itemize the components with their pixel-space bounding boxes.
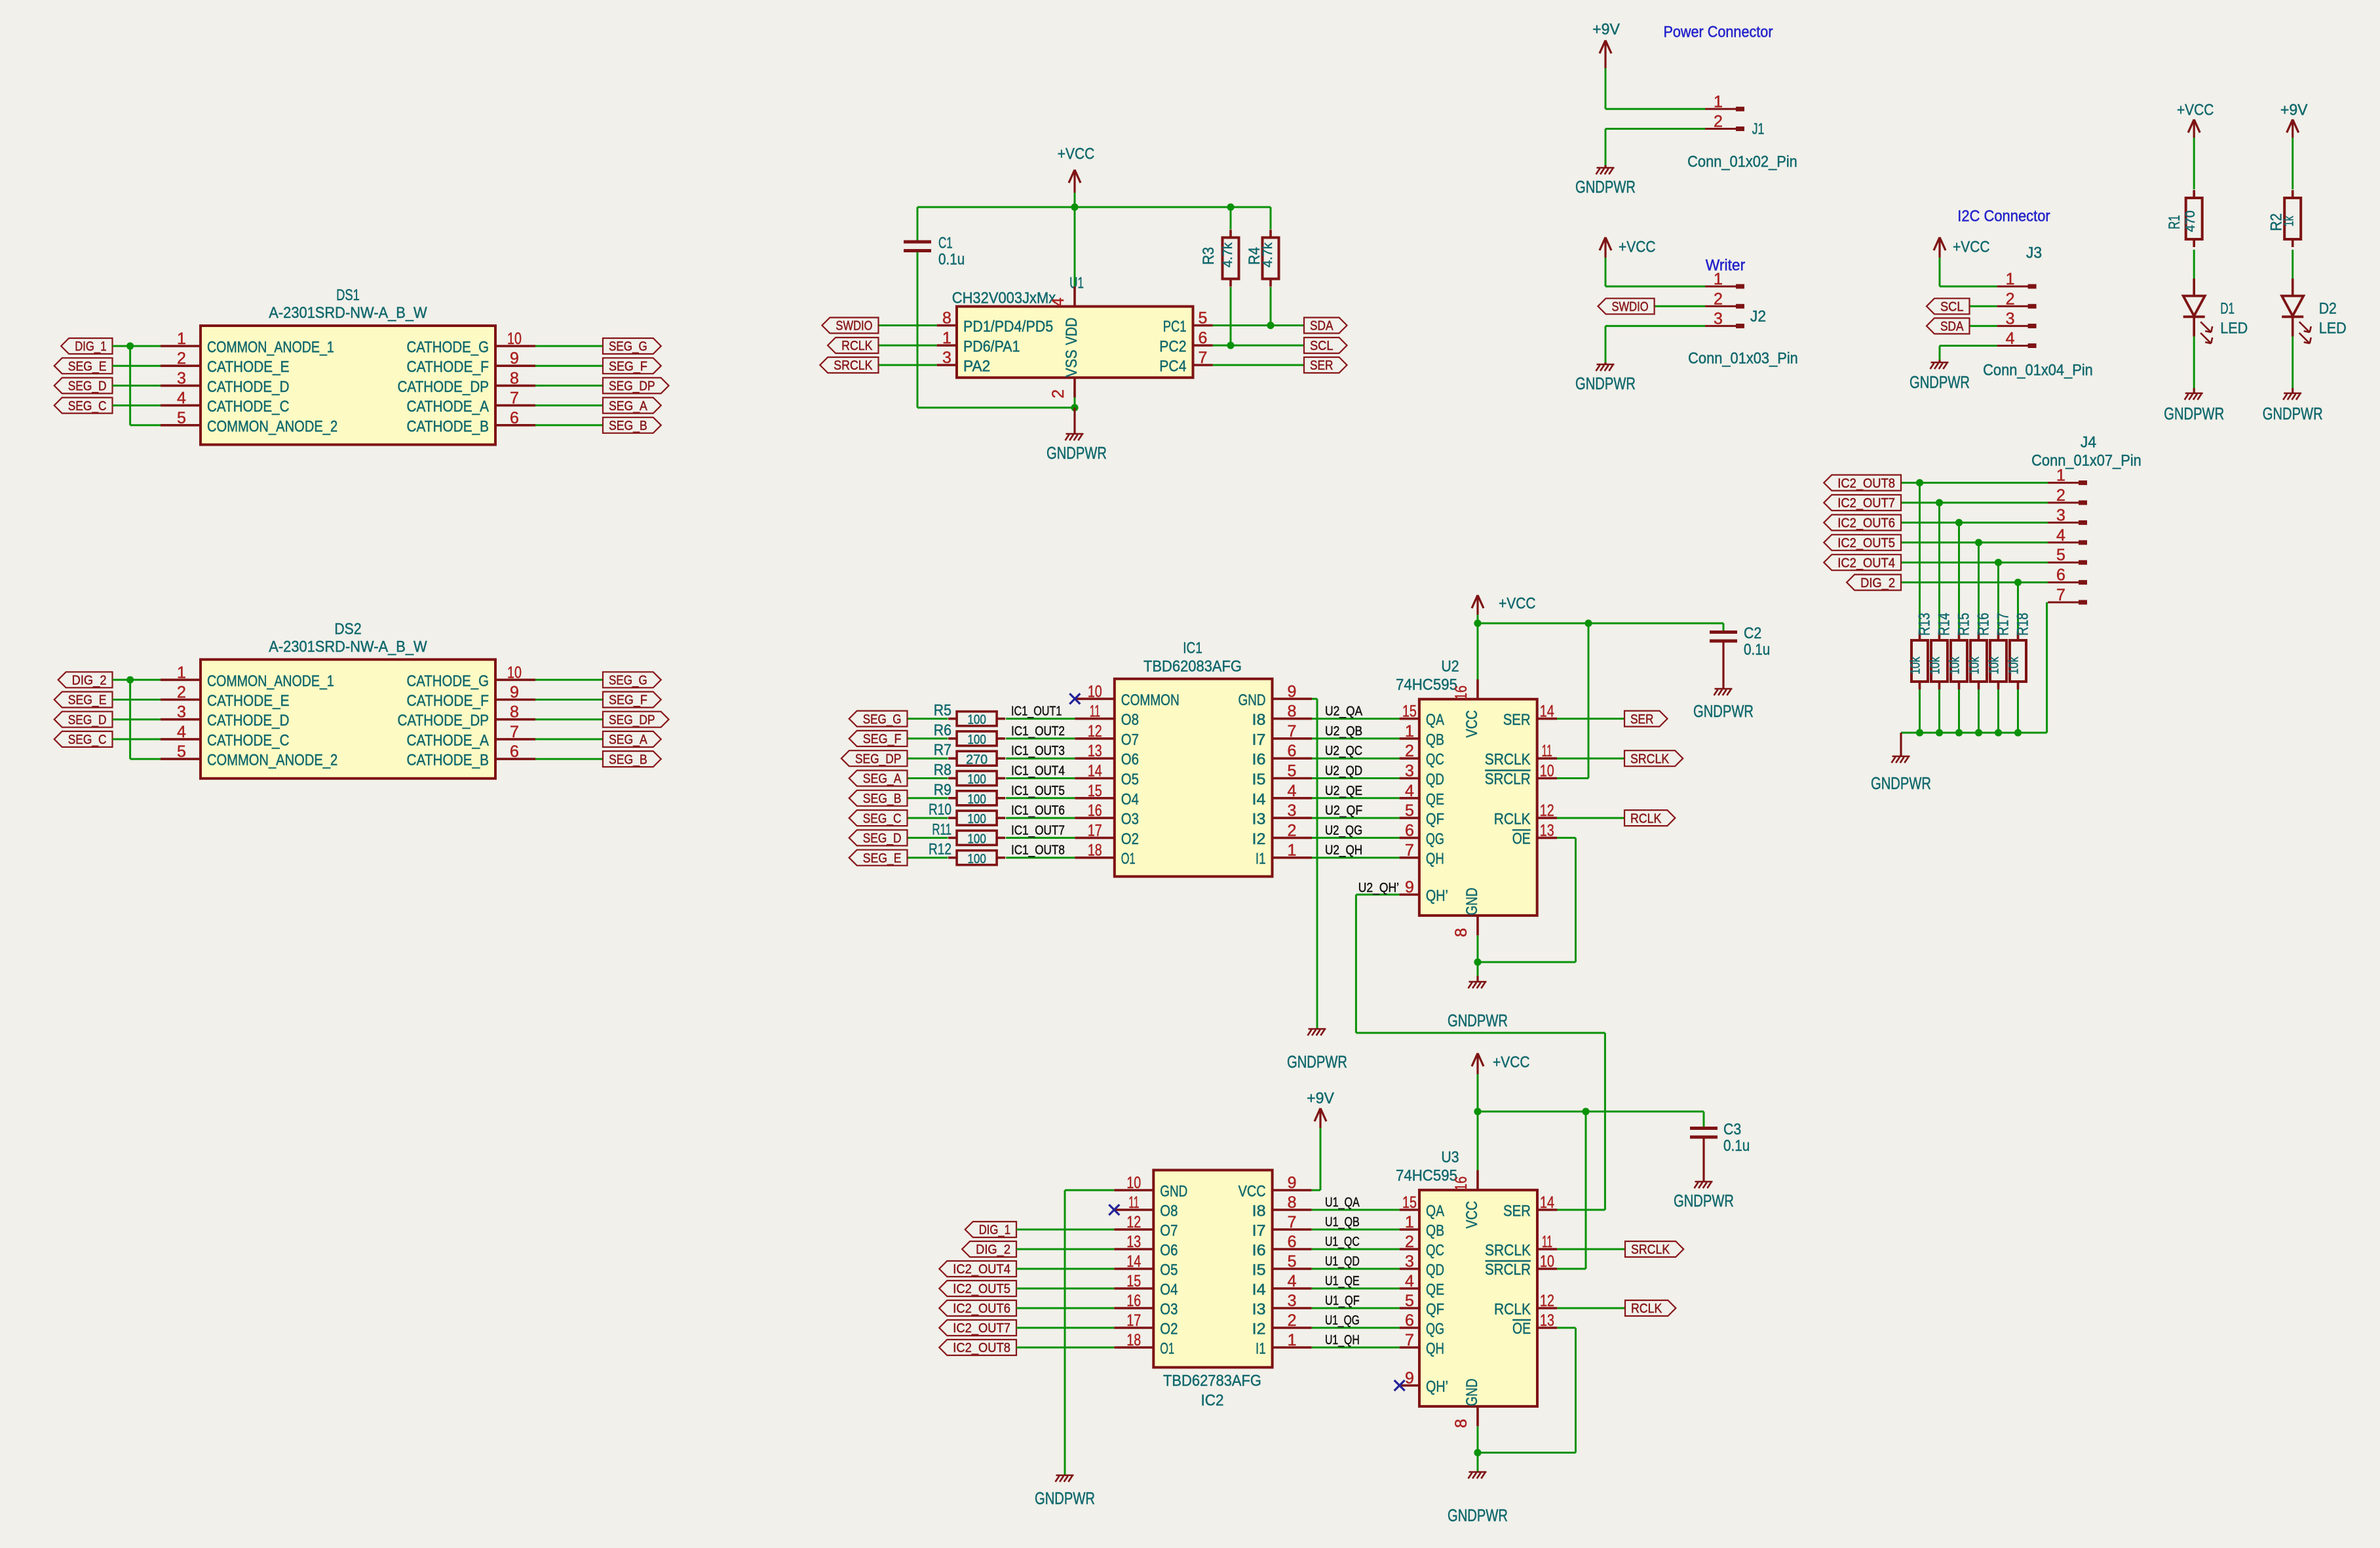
svg-text:100: 100 [967, 792, 986, 807]
svg-text:5: 5 [1199, 309, 1208, 328]
svg-text:SEG_A: SEG_A [609, 733, 647, 747]
svg-text:R15: R15 [1955, 613, 1973, 636]
svg-text:470: 470 [2183, 210, 2198, 232]
svg-text:2: 2 [1405, 742, 1414, 760]
svg-text:A-2301SRD-NW-A_B_W: A-2301SRD-NW-A_B_W [269, 304, 427, 322]
svg-text:16: 16 [1452, 1176, 1470, 1191]
svg-text:R3: R3 [1200, 247, 1218, 265]
svg-text:IC1_OUT3: IC1_OUT3 [1011, 744, 1065, 758]
svg-text:SEG_D: SEG_D [68, 713, 107, 727]
svg-text:SDA: SDA [1310, 319, 1334, 334]
svg-text:U1_QD: U1_QD [1325, 1254, 1360, 1269]
svg-text:11: 11 [1542, 1233, 1552, 1251]
svg-text:1: 1 [1714, 92, 1723, 111]
svg-text:10k: 10k [1909, 656, 1923, 674]
svg-text:7: 7 [1405, 842, 1414, 860]
svg-text:VCC: VCC [1463, 710, 1481, 738]
svg-text:CATHODE_A: CATHODE_A [407, 731, 489, 749]
svg-text:CATHODE_C: CATHODE_C [207, 398, 290, 416]
svg-text:QG: QG [1426, 1321, 1444, 1338]
svg-text:2: 2 [2006, 290, 2015, 308]
svg-text:PD1/PD4/PD5: PD1/PD4/PD5 [963, 318, 1053, 336]
svg-text:+VCC: +VCC [1493, 1054, 1530, 1072]
svg-text:10k: 10k [2007, 656, 2022, 674]
svg-text:I2: I2 [1252, 1321, 1266, 1338]
svg-text:O3: O3 [1121, 811, 1139, 828]
svg-text:QF: QF [1426, 1301, 1444, 1319]
svg-text:U1_QG: U1_QG [1325, 1313, 1360, 1328]
svg-text:I1: I1 [1256, 850, 1266, 868]
svg-text:7: 7 [510, 389, 519, 408]
svg-text:GNDPWR: GNDPWR [2263, 405, 2323, 423]
svg-text:100: 100 [967, 852, 986, 866]
svg-text:GND: GND [1160, 1183, 1187, 1201]
svg-text:6: 6 [1405, 1311, 1414, 1330]
svg-text:SEG_B: SEG_B [609, 752, 647, 767]
svg-text:CATHODE_F: CATHODE_F [407, 692, 489, 710]
svg-text:O7: O7 [1160, 1222, 1178, 1240]
svg-text:SRCLK: SRCLK [834, 358, 873, 373]
svg-text:CATHODE_F: CATHODE_F [407, 358, 489, 376]
svg-text:PC4: PC4 [1159, 358, 1186, 376]
svg-text:11: 11 [1542, 742, 1552, 760]
svg-text:DIG_2: DIG_2 [976, 1243, 1010, 1257]
svg-text:4.7k: 4.7k [1221, 242, 1235, 267]
svg-text:VCC: VCC [1238, 1183, 1266, 1201]
svg-text:SEG_C: SEG_C [863, 811, 902, 826]
svg-text:0.1u: 0.1u [938, 251, 965, 269]
svg-text:IC2_OUT8: IC2_OUT8 [953, 1341, 1010, 1355]
svg-text:I7: I7 [1252, 1222, 1266, 1240]
svg-text:R5: R5 [934, 702, 951, 720]
svg-text:0.1u: 0.1u [1744, 641, 1770, 659]
svg-text:O2: O2 [1160, 1321, 1178, 1338]
svg-text:U1_QH: U1_QH [1325, 1333, 1360, 1347]
svg-text:U2_QA: U2_QA [1325, 705, 1363, 719]
svg-text:CATHODE_DP: CATHODE_DP [398, 378, 489, 396]
svg-text:J3: J3 [2026, 244, 2042, 262]
svg-text:QG: QG [1426, 830, 1444, 848]
svg-text:9: 9 [510, 349, 519, 368]
svg-text:+9V: +9V [2280, 102, 2308, 119]
svg-text:IC2_OUT5: IC2_OUT5 [953, 1282, 1010, 1296]
svg-text:SEG_B: SEG_B [609, 419, 647, 433]
svg-text:CATHODE_G: CATHODE_G [407, 339, 489, 357]
svg-text:Conn_01x02_Pin: Conn_01x02_Pin [1687, 153, 1797, 171]
svg-text:17: 17 [1088, 821, 1102, 840]
svg-text:LED: LED [2319, 320, 2347, 338]
svg-text:R11: R11 [932, 821, 951, 838]
svg-text:D2: D2 [2319, 300, 2337, 318]
svg-text:16: 16 [1452, 686, 1470, 700]
svg-text:IC1_OUT5: IC1_OUT5 [1011, 784, 1065, 798]
svg-text:7: 7 [1199, 349, 1208, 367]
svg-text:13: 13 [1126, 1233, 1141, 1251]
svg-text:1: 1 [177, 330, 186, 348]
svg-text:TBD62783AFG: TBD62783AFG [1163, 1372, 1261, 1390]
svg-text:GNDPWR: GNDPWR [1871, 775, 1931, 793]
svg-text:+9V: +9V [1307, 1090, 1334, 1108]
svg-text:OE: OE [1512, 1320, 1531, 1338]
svg-text:SER: SER [1310, 358, 1334, 373]
svg-text:1: 1 [1714, 270, 1723, 288]
svg-text:U1_QF: U1_QF [1325, 1294, 1360, 1308]
svg-text:14: 14 [1088, 762, 1102, 781]
svg-text:6: 6 [1288, 742, 1297, 760]
svg-text:+VCC: +VCC [1058, 145, 1095, 163]
svg-text:TBD62083AFG: TBD62083AFG [1143, 658, 1242, 676]
svg-text:3: 3 [177, 369, 186, 387]
svg-text:7: 7 [510, 723, 519, 741]
svg-text:4: 4 [2056, 526, 2065, 545]
svg-text:COMMON_ANODE_1: COMMON_ANODE_1 [207, 672, 334, 690]
svg-text:Conn_01x04_Pin: Conn_01x04_Pin [1983, 362, 2093, 379]
svg-text:U2_QF: U2_QF [1325, 803, 1362, 818]
svg-text:8: 8 [1452, 928, 1470, 937]
svg-text:COMMON: COMMON [1121, 691, 1180, 709]
svg-text:9: 9 [510, 684, 519, 702]
svg-text:10: 10 [1540, 1252, 1554, 1271]
svg-text:DIG_1: DIG_1 [979, 1223, 1010, 1237]
svg-text:7: 7 [1405, 1331, 1414, 1349]
svg-text:2: 2 [1288, 1311, 1297, 1330]
svg-text:SRCLK: SRCLK [1485, 751, 1531, 769]
svg-text:15: 15 [1402, 1193, 1417, 1212]
svg-text:SER: SER [1503, 711, 1531, 729]
svg-text:R16: R16 [1975, 613, 1993, 636]
svg-text:RCLK: RCLK [1631, 1302, 1662, 1316]
svg-text:17: 17 [1126, 1311, 1141, 1330]
svg-text:100: 100 [967, 832, 986, 847]
svg-text:18: 18 [1088, 842, 1102, 860]
svg-text:10: 10 [1126, 1174, 1141, 1192]
svg-text:3: 3 [1405, 762, 1414, 781]
svg-text:SEG_G: SEG_G [609, 674, 647, 688]
svg-text:IC1: IC1 [1183, 640, 1202, 657]
svg-text:OE: OE [1512, 830, 1531, 847]
svg-text:GNDPWR: GNDPWR [1448, 1507, 1508, 1525]
svg-text:PC1: PC1 [1163, 318, 1187, 336]
svg-text:12: 12 [1540, 1292, 1554, 1310]
svg-text:IC1_OUT7: IC1_OUT7 [1011, 823, 1065, 838]
svg-text:LED: LED [2220, 320, 2248, 338]
svg-text:R17: R17 [1995, 613, 2012, 636]
svg-text:I6: I6 [1252, 1242, 1266, 1260]
svg-text:Power Connector: Power Connector [1663, 24, 1773, 41]
svg-text:IC1_OUT2: IC1_OUT2 [1011, 724, 1065, 739]
svg-text:SEG_E: SEG_E [68, 359, 107, 374]
svg-text:SEG_D: SEG_D [863, 832, 902, 846]
svg-text:3: 3 [2056, 506, 2065, 524]
svg-text:IC2_OUT7: IC2_OUT7 [1837, 496, 1895, 511]
svg-text:GNDPWR: GNDPWR [1287, 1053, 1347, 1072]
svg-text:C1: C1 [938, 235, 953, 252]
svg-text:CATHODE_B: CATHODE_B [407, 417, 489, 435]
svg-text:16: 16 [1088, 802, 1102, 820]
svg-text:J4: J4 [2081, 434, 2096, 452]
svg-text:270: 270 [966, 752, 988, 767]
svg-text:J2: J2 [1750, 308, 1766, 326]
svg-text:100: 100 [967, 812, 986, 826]
svg-text:14: 14 [1540, 1193, 1554, 1212]
svg-text:100: 100 [967, 733, 986, 747]
svg-text:C2: C2 [1744, 625, 1761, 642]
svg-text:GND: GND [1463, 1379, 1481, 1406]
svg-text:5: 5 [1405, 1292, 1414, 1310]
svg-text:QA: QA [1426, 711, 1444, 729]
svg-text:O5: O5 [1160, 1262, 1178, 1279]
svg-text:4: 4 [1288, 782, 1297, 800]
svg-text:R8: R8 [934, 762, 951, 779]
svg-text:COMMON_ANODE_1: COMMON_ANODE_1 [207, 339, 334, 357]
svg-text:PD6/PA1: PD6/PA1 [963, 338, 1020, 356]
svg-text:CATHODE_B: CATHODE_B [407, 752, 489, 769]
svg-text:O8: O8 [1121, 711, 1139, 729]
svg-text:VCC: VCC [1463, 1201, 1481, 1229]
svg-text:QE: QE [1426, 790, 1444, 808]
svg-text:R7: R7 [934, 741, 951, 759]
svg-text:R13: R13 [1916, 613, 1934, 636]
svg-text:QH: QH [1426, 850, 1444, 868]
svg-text:RCLK: RCLK [1494, 1301, 1531, 1319]
svg-text:VSS: VSS [1063, 350, 1081, 377]
svg-text:SEG_C: SEG_C [68, 733, 107, 747]
svg-text:U3: U3 [1441, 1149, 1459, 1167]
svg-text:CATHODE_G: CATHODE_G [407, 672, 489, 690]
svg-text:I8: I8 [1252, 711, 1266, 729]
svg-text:IC1_OUT8: IC1_OUT8 [1011, 843, 1065, 858]
svg-text:9: 9 [1288, 682, 1297, 701]
svg-text:I4: I4 [1252, 1281, 1266, 1299]
svg-text:6: 6 [1405, 821, 1414, 840]
svg-text:14: 14 [1126, 1252, 1141, 1271]
svg-text:SEG_E: SEG_E [863, 851, 902, 866]
svg-text:DIG_1: DIG_1 [75, 339, 106, 354]
svg-text:QC: QC [1426, 1242, 1444, 1260]
svg-text:U2_QH: U2_QH [1325, 843, 1362, 858]
svg-text:QH: QH [1426, 1340, 1444, 1358]
svg-text:QB: QB [1426, 731, 1444, 748]
svg-text:1: 1 [942, 329, 951, 347]
svg-text:RCLK: RCLK [1494, 811, 1531, 828]
svg-text:I3: I3 [1252, 1301, 1266, 1319]
svg-text:U2_QE: U2_QE [1325, 784, 1362, 798]
svg-text:IC1_OUT6: IC1_OUT6 [1011, 803, 1065, 818]
svg-text:SEG_E: SEG_E [68, 693, 107, 708]
svg-text:O1: O1 [1160, 1340, 1174, 1358]
svg-text:I2: I2 [1252, 830, 1266, 848]
svg-text:U2_QG: U2_QG [1325, 823, 1362, 838]
svg-text:R12: R12 [929, 841, 951, 859]
svg-text:3: 3 [177, 703, 186, 722]
svg-text:I5: I5 [1252, 771, 1266, 788]
svg-text:CH32V003JxMx: CH32V003JxMx [952, 290, 1056, 307]
svg-text:+9V: +9V [1592, 21, 1620, 39]
svg-text:5: 5 [1288, 1252, 1297, 1271]
svg-text:2: 2 [1714, 290, 1723, 308]
svg-text:IC2_OUT7: IC2_OUT7 [953, 1321, 1010, 1336]
svg-text:+VCC: +VCC [1953, 239, 1990, 256]
svg-text:1: 1 [1405, 1213, 1414, 1231]
svg-text:DS1: DS1 [336, 286, 360, 304]
svg-text:SER: SER [1503, 1203, 1531, 1220]
svg-text:12: 12 [1540, 802, 1554, 820]
svg-text:11: 11 [1090, 703, 1100, 721]
svg-text:74HC595: 74HC595 [1396, 1167, 1457, 1185]
svg-text:GNDPWR: GNDPWR [2164, 405, 2224, 423]
svg-text:5: 5 [177, 743, 186, 761]
svg-text:SDA: SDA [1940, 320, 1964, 334]
svg-text:8: 8 [1288, 703, 1297, 721]
svg-text:SEG_F: SEG_F [609, 693, 647, 708]
svg-text:R6: R6 [934, 722, 951, 739]
svg-text:1: 1 [177, 663, 186, 682]
svg-text:3: 3 [2006, 309, 2015, 328]
svg-text:DIG_2: DIG_2 [72, 674, 107, 688]
svg-text:GNDPWR: GNDPWR [1575, 178, 1636, 197]
svg-text:C3: C3 [1723, 1121, 1741, 1138]
svg-text:11: 11 [1128, 1193, 1139, 1212]
svg-text:VDD: VDD [1063, 318, 1081, 345]
svg-text:6: 6 [1288, 1233, 1297, 1251]
svg-text:U1: U1 [1069, 275, 1084, 292]
svg-text:QA: QA [1426, 1203, 1444, 1220]
svg-text:QD: QD [1426, 771, 1444, 788]
svg-text:RCLK: RCLK [841, 339, 873, 353]
svg-text:O3: O3 [1160, 1301, 1178, 1319]
svg-text:GND: GND [1463, 888, 1481, 916]
svg-text:SCL: SCL [1940, 300, 1964, 315]
svg-text:CATHODE_E: CATHODE_E [207, 692, 290, 710]
svg-text:2: 2 [177, 684, 186, 702]
svg-text:SEG_F: SEG_F [863, 732, 902, 746]
svg-text:QC: QC [1426, 751, 1444, 769]
svg-text:1: 1 [1288, 842, 1297, 860]
svg-text:4: 4 [177, 389, 186, 408]
svg-text:U2: U2 [1441, 658, 1459, 676]
svg-text:D1: D1 [2220, 300, 2235, 318]
svg-text:3: 3 [1288, 1292, 1297, 1310]
svg-text:12: 12 [1126, 1213, 1141, 1231]
svg-text:I6: I6 [1252, 751, 1266, 769]
svg-text:9: 9 [1405, 1369, 1414, 1387]
svg-text:O8: O8 [1160, 1203, 1178, 1220]
svg-text:74HC595: 74HC595 [1396, 676, 1457, 694]
svg-text:1: 1 [2056, 467, 2065, 485]
svg-text:10: 10 [1088, 682, 1102, 701]
svg-text:100: 100 [967, 773, 986, 787]
svg-text:6: 6 [1199, 329, 1208, 347]
svg-text:COMMON_ANODE_2: COMMON_ANODE_2 [207, 417, 337, 435]
svg-text:4: 4 [1405, 782, 1414, 800]
svg-text:I2C Connector: I2C Connector [1957, 208, 2050, 225]
svg-text:2: 2 [1049, 389, 1067, 398]
svg-text:15: 15 [1402, 703, 1417, 721]
svg-text:QF: QF [1426, 811, 1444, 828]
svg-text:12: 12 [1088, 722, 1102, 741]
svg-text:8: 8 [1288, 1193, 1297, 1212]
svg-text:SWDIO: SWDIO [835, 319, 872, 334]
svg-text:SEG_DP: SEG_DP [855, 752, 902, 766]
svg-text:10k: 10k [1987, 656, 2002, 674]
svg-text:5: 5 [2056, 546, 2065, 564]
svg-text:QH’: QH’ [1426, 887, 1448, 905]
svg-text:13: 13 [1540, 821, 1554, 840]
svg-text:3: 3 [1405, 1252, 1414, 1271]
svg-text:U2_QD: U2_QD [1325, 764, 1362, 779]
svg-text:U1_QB: U1_QB [1325, 1215, 1360, 1229]
svg-text:O4: O4 [1121, 790, 1139, 808]
svg-text:4: 4 [177, 723, 186, 741]
svg-text:CATHODE_D: CATHODE_D [207, 712, 290, 729]
svg-text:10: 10 [507, 330, 522, 348]
svg-text:QH’: QH’ [1426, 1378, 1448, 1396]
svg-text:J1: J1 [1752, 121, 1765, 138]
svg-text:IC1_OUT1: IC1_OUT1 [1011, 705, 1062, 719]
svg-text:10k: 10k [1968, 656, 1982, 674]
svg-text:15: 15 [1088, 782, 1102, 800]
svg-text:O7: O7 [1121, 731, 1139, 748]
svg-text:SEG_A: SEG_A [863, 772, 902, 786]
svg-text:GNDPWR: GNDPWR [1693, 703, 1754, 721]
svg-text:PA2: PA2 [963, 358, 990, 376]
svg-text:SCL: SCL [1310, 339, 1334, 353]
svg-text:4: 4 [2006, 330, 2015, 348]
svg-text:3: 3 [942, 349, 951, 367]
svg-text:R10: R10 [929, 801, 951, 819]
svg-text:CATHODE_E: CATHODE_E [207, 358, 290, 376]
svg-text:IC2: IC2 [1201, 1392, 1224, 1410]
svg-text:SRCLK: SRCLK [1630, 752, 1670, 766]
svg-text:O2: O2 [1121, 830, 1139, 848]
svg-text:IC2_OUT4: IC2_OUT4 [953, 1262, 1010, 1277]
svg-text:I8: I8 [1252, 1203, 1266, 1220]
svg-text:SEG_DP: SEG_DP [609, 713, 655, 727]
svg-text:10k: 10k [1948, 656, 1963, 674]
svg-text:I7: I7 [1252, 731, 1266, 748]
svg-text:IC2_OUT6: IC2_OUT6 [953, 1302, 1010, 1316]
svg-text:GNDPWR: GNDPWR [1674, 1192, 1734, 1210]
svg-text:2: 2 [1405, 1233, 1414, 1251]
svg-text:R14: R14 [1936, 613, 1953, 636]
svg-text:+VCC: +VCC [1619, 239, 1656, 256]
svg-text:8: 8 [1452, 1419, 1470, 1428]
svg-text:SRCLR: SRCLR [1485, 1261, 1531, 1279]
svg-text:U2_QB: U2_QB [1325, 724, 1362, 739]
svg-text:R18: R18 [2014, 613, 2032, 636]
svg-text:I5: I5 [1252, 1262, 1266, 1279]
svg-text:2: 2 [1288, 821, 1297, 840]
svg-text:18: 18 [1126, 1331, 1141, 1349]
svg-text:+VCC: +VCC [1499, 595, 1536, 613]
svg-text:4: 4 [1405, 1272, 1414, 1290]
svg-text:2: 2 [177, 349, 186, 368]
svg-text:1: 1 [1405, 722, 1414, 741]
svg-text:5: 5 [1288, 762, 1297, 781]
svg-text:RCLK: RCLK [1630, 811, 1662, 826]
svg-text:4.7k: 4.7k [1261, 242, 1275, 267]
svg-text:U1_QE: U1_QE [1325, 1274, 1360, 1288]
svg-text:SEG_D: SEG_D [68, 379, 107, 394]
svg-text:8: 8 [942, 309, 951, 328]
svg-text:IC2_OUT4: IC2_OUT4 [1837, 556, 1895, 570]
svg-text:QB: QB [1426, 1222, 1444, 1240]
svg-text:U2_QC: U2_QC [1325, 744, 1362, 758]
svg-text:3: 3 [1714, 309, 1723, 328]
svg-text:10k: 10k [1929, 656, 1943, 674]
svg-text:R1: R1 [2166, 215, 2183, 229]
svg-text:R9: R9 [934, 781, 951, 799]
